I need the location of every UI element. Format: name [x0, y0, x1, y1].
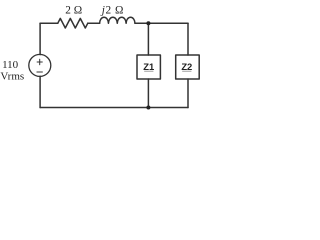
- junction dot bottom node: [146, 106, 150, 110]
- voltage source V circle: [29, 54, 51, 76]
- svg-text:110: 110: [2, 59, 19, 71]
- wire between resistor and inductor: [88, 22, 100, 24]
- underline of label Z2: [182, 70, 191, 72]
- impedance Z2 box: [176, 55, 200, 79]
- svg-text:Vrms: Vrms: [0, 70, 24, 82]
- resistor 2 ohm zigzag: [58, 18, 88, 28]
- inductor j2 ohm coil: [100, 17, 135, 23]
- wire Z1 bottom lead: [147, 79, 149, 108]
- junction dot top node: [146, 21, 150, 25]
- wire left vertical bottom (source bottom lead to bottom rail corner): [39, 76, 41, 107]
- impedance Z1 box: [137, 55, 160, 79]
- svg-text:Z2: Z2: [181, 61, 192, 72]
- wire Z2 bottom lead: [187, 79, 189, 108]
- wire right vertical down to Z2 top: [187, 23, 189, 55]
- minus sign of source: [37, 71, 43, 73]
- plus sign of source: [37, 59, 42, 65]
- wire branch from top node down to Z1 top: [147, 23, 149, 55]
- wire top rail right segment: [135, 22, 188, 24]
- svg-text:j2 Ω: j2 Ω: [100, 4, 124, 16]
- svg-text:2 Ω: 2 Ω: [65, 4, 82, 16]
- wire bottom rail: [40, 107, 188, 109]
- underline of label Z1: [144, 70, 153, 72]
- wire top rail left segment: [40, 22, 58, 24]
- svg-text:Z1: Z1: [143, 61, 154, 72]
- wire left vertical top (source top lead to top rail corner): [39, 23, 41, 54]
